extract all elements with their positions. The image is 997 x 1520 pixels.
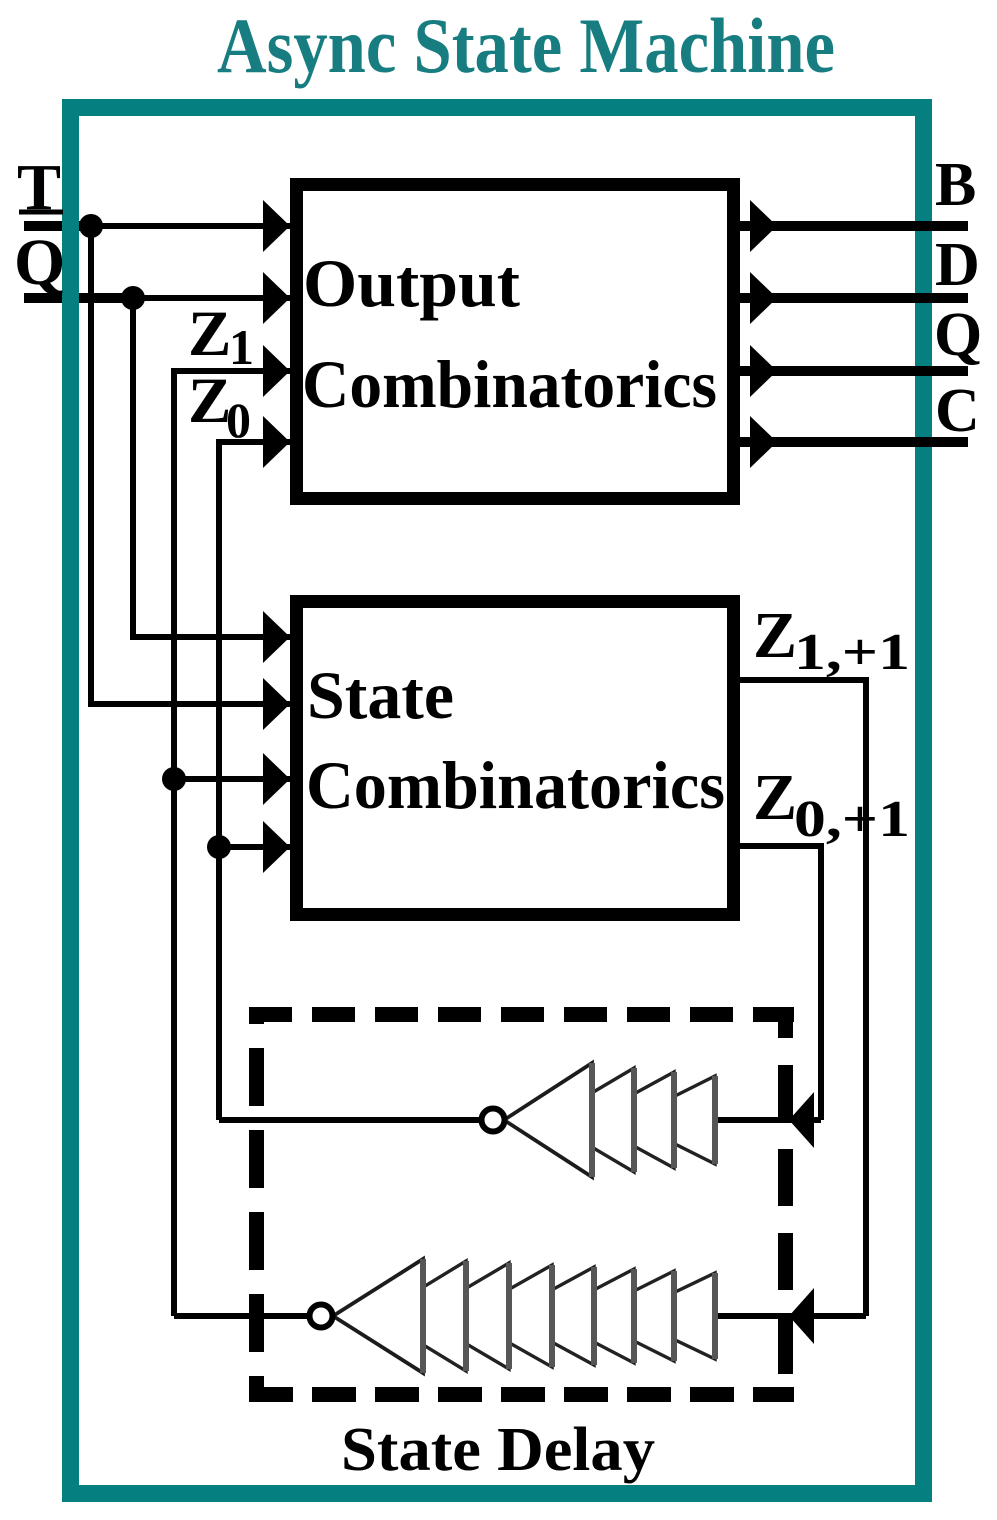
svg-text:Q: Q <box>14 226 65 299</box>
bottom chain buffer 3 <box>419 1263 509 1369</box>
arrow into U2 input 4 (Z0) <box>263 821 290 873</box>
top chain inverter bubble <box>482 1109 505 1132</box>
svg-text:Z: Z <box>188 365 231 437</box>
wire vertical Z1 <box>171 368 177 1316</box>
wire Z0 to output block <box>219 439 290 445</box>
wire vertical Z0+1 <box>818 843 824 1120</box>
outer teal frame <box>71 108 924 1494</box>
bottom chain buffer 8 <box>625 1273 715 1359</box>
bottom chain buffer 7 <box>584 1271 674 1361</box>
wire vertical Z1+1 <box>863 677 869 1316</box>
svg-text:0,+1: 0,+1 <box>794 791 910 848</box>
wire Q to output block <box>80 295 290 301</box>
bottom chain buffer 4 <box>462 1265 552 1367</box>
arrow into U1 input 4 (Z0) <box>263 416 290 468</box>
svg-text:B: B <box>935 151 976 219</box>
wire output Q <box>740 366 968 376</box>
wire Z0+1 from state block <box>740 843 821 849</box>
arrow into top delay chain <box>789 1092 814 1148</box>
arrow output D <box>750 272 777 324</box>
svg-text:Z: Z <box>753 761 797 834</box>
svg-text:Async State Machine: Async State Machine <box>217 2 835 89</box>
wire Q input (thick, under frame) <box>24 293 134 303</box>
arrow into U2 input 3 (Z1) <box>263 753 290 805</box>
bottom chain buffer 2 <box>376 1261 466 1371</box>
svg-text:Combinatorics: Combinatorics <box>302 346 717 422</box>
wire top chain input (from Z0+1 vertical) <box>712 1117 821 1123</box>
bottom chain buffer 6 <box>544 1269 634 1363</box>
dashed state delay box: top edge <box>249 1007 794 1022</box>
top chain base verticals <box>592 1063 715 1177</box>
wire Q to state block <box>133 634 290 640</box>
arrow output Q <box>750 345 777 397</box>
wire Z1+1 from state block <box>740 677 866 683</box>
dashed state delay box: bottom edge <box>249 1387 794 1402</box>
svg-text:Combinatorics: Combinatorics <box>306 747 725 823</box>
svg-text:C: C <box>935 377 980 445</box>
svg-text:1: 1 <box>229 319 254 375</box>
svg-text:Z: Z <box>753 599 797 672</box>
junction dot Z0 <box>207 835 231 859</box>
wire T to state block <box>91 701 290 707</box>
svg-text:D: D <box>935 231 980 299</box>
wire Z1 to output block <box>174 368 290 374</box>
top chain buffer 4 <box>627 1076 715 1164</box>
svg-text:Z: Z <box>188 298 231 370</box>
dashed state delay box: right edge <box>778 1007 793 1402</box>
junction dot Q <box>121 286 145 310</box>
arrow into bottom delay chain <box>789 1288 814 1344</box>
wire T input (thick, under frame) <box>24 221 88 231</box>
dashed state delay box: left edge <box>249 1007 264 1402</box>
arrow output C <box>750 416 777 468</box>
svg-text:State Delay: State Delay <box>341 1416 655 1484</box>
bottom chain base verticals <box>423 1259 715 1373</box>
wire bottom chain output (to Z1 vertical) <box>174 1313 310 1319</box>
bottom chain inverter bubble <box>310 1305 333 1328</box>
wire Z1 to state block <box>174 776 290 782</box>
wire top chain output (to Z0 vertical) <box>219 1117 482 1123</box>
bottom chain buffer 5 <box>504 1267 594 1365</box>
wire output C <box>740 437 968 447</box>
wire output B <box>740 221 968 231</box>
block U2 State Combinatorics <box>297 602 734 915</box>
arrow into U1 input 1 (T) <box>263 200 290 252</box>
svg-text:1,+1: 1,+1 <box>794 624 910 681</box>
svg-text:Q: Q <box>934 301 982 369</box>
top chain buffer 3 <box>586 1072 674 1168</box>
wire vertical T feedback <box>88 223 94 707</box>
top chain inverter triangle <box>504 1063 592 1177</box>
junction dot Z1 <box>162 767 186 791</box>
svg-text:Output: Output <box>303 245 520 321</box>
wire output D <box>740 293 968 303</box>
svg-text:0: 0 <box>226 392 251 448</box>
junction dot T <box>79 214 103 238</box>
wire bottom chain input (from Z1+1 vertical) <box>712 1313 866 1319</box>
wire vertical Q feedback <box>130 295 136 640</box>
block U1 Output Combinatorics <box>297 185 734 499</box>
arrow into U2 input 2 (T) <box>263 678 290 730</box>
wire Z0 to state block <box>219 844 290 850</box>
wire T to output block <box>85 223 290 229</box>
arrow output B <box>750 200 777 252</box>
arrow into U2 input 1 (Q) <box>263 611 290 663</box>
bottom chain inverter triangle <box>333 1259 423 1373</box>
top chain buffer 2 <box>546 1068 634 1172</box>
underline of label T <box>19 210 63 215</box>
wire vertical Z0 <box>216 439 222 1120</box>
arrow into U1 input 2 (Q) <box>263 272 290 324</box>
arrow into U1 input 3 (Z1) <box>263 345 290 397</box>
svg-text:State: State <box>307 657 454 733</box>
